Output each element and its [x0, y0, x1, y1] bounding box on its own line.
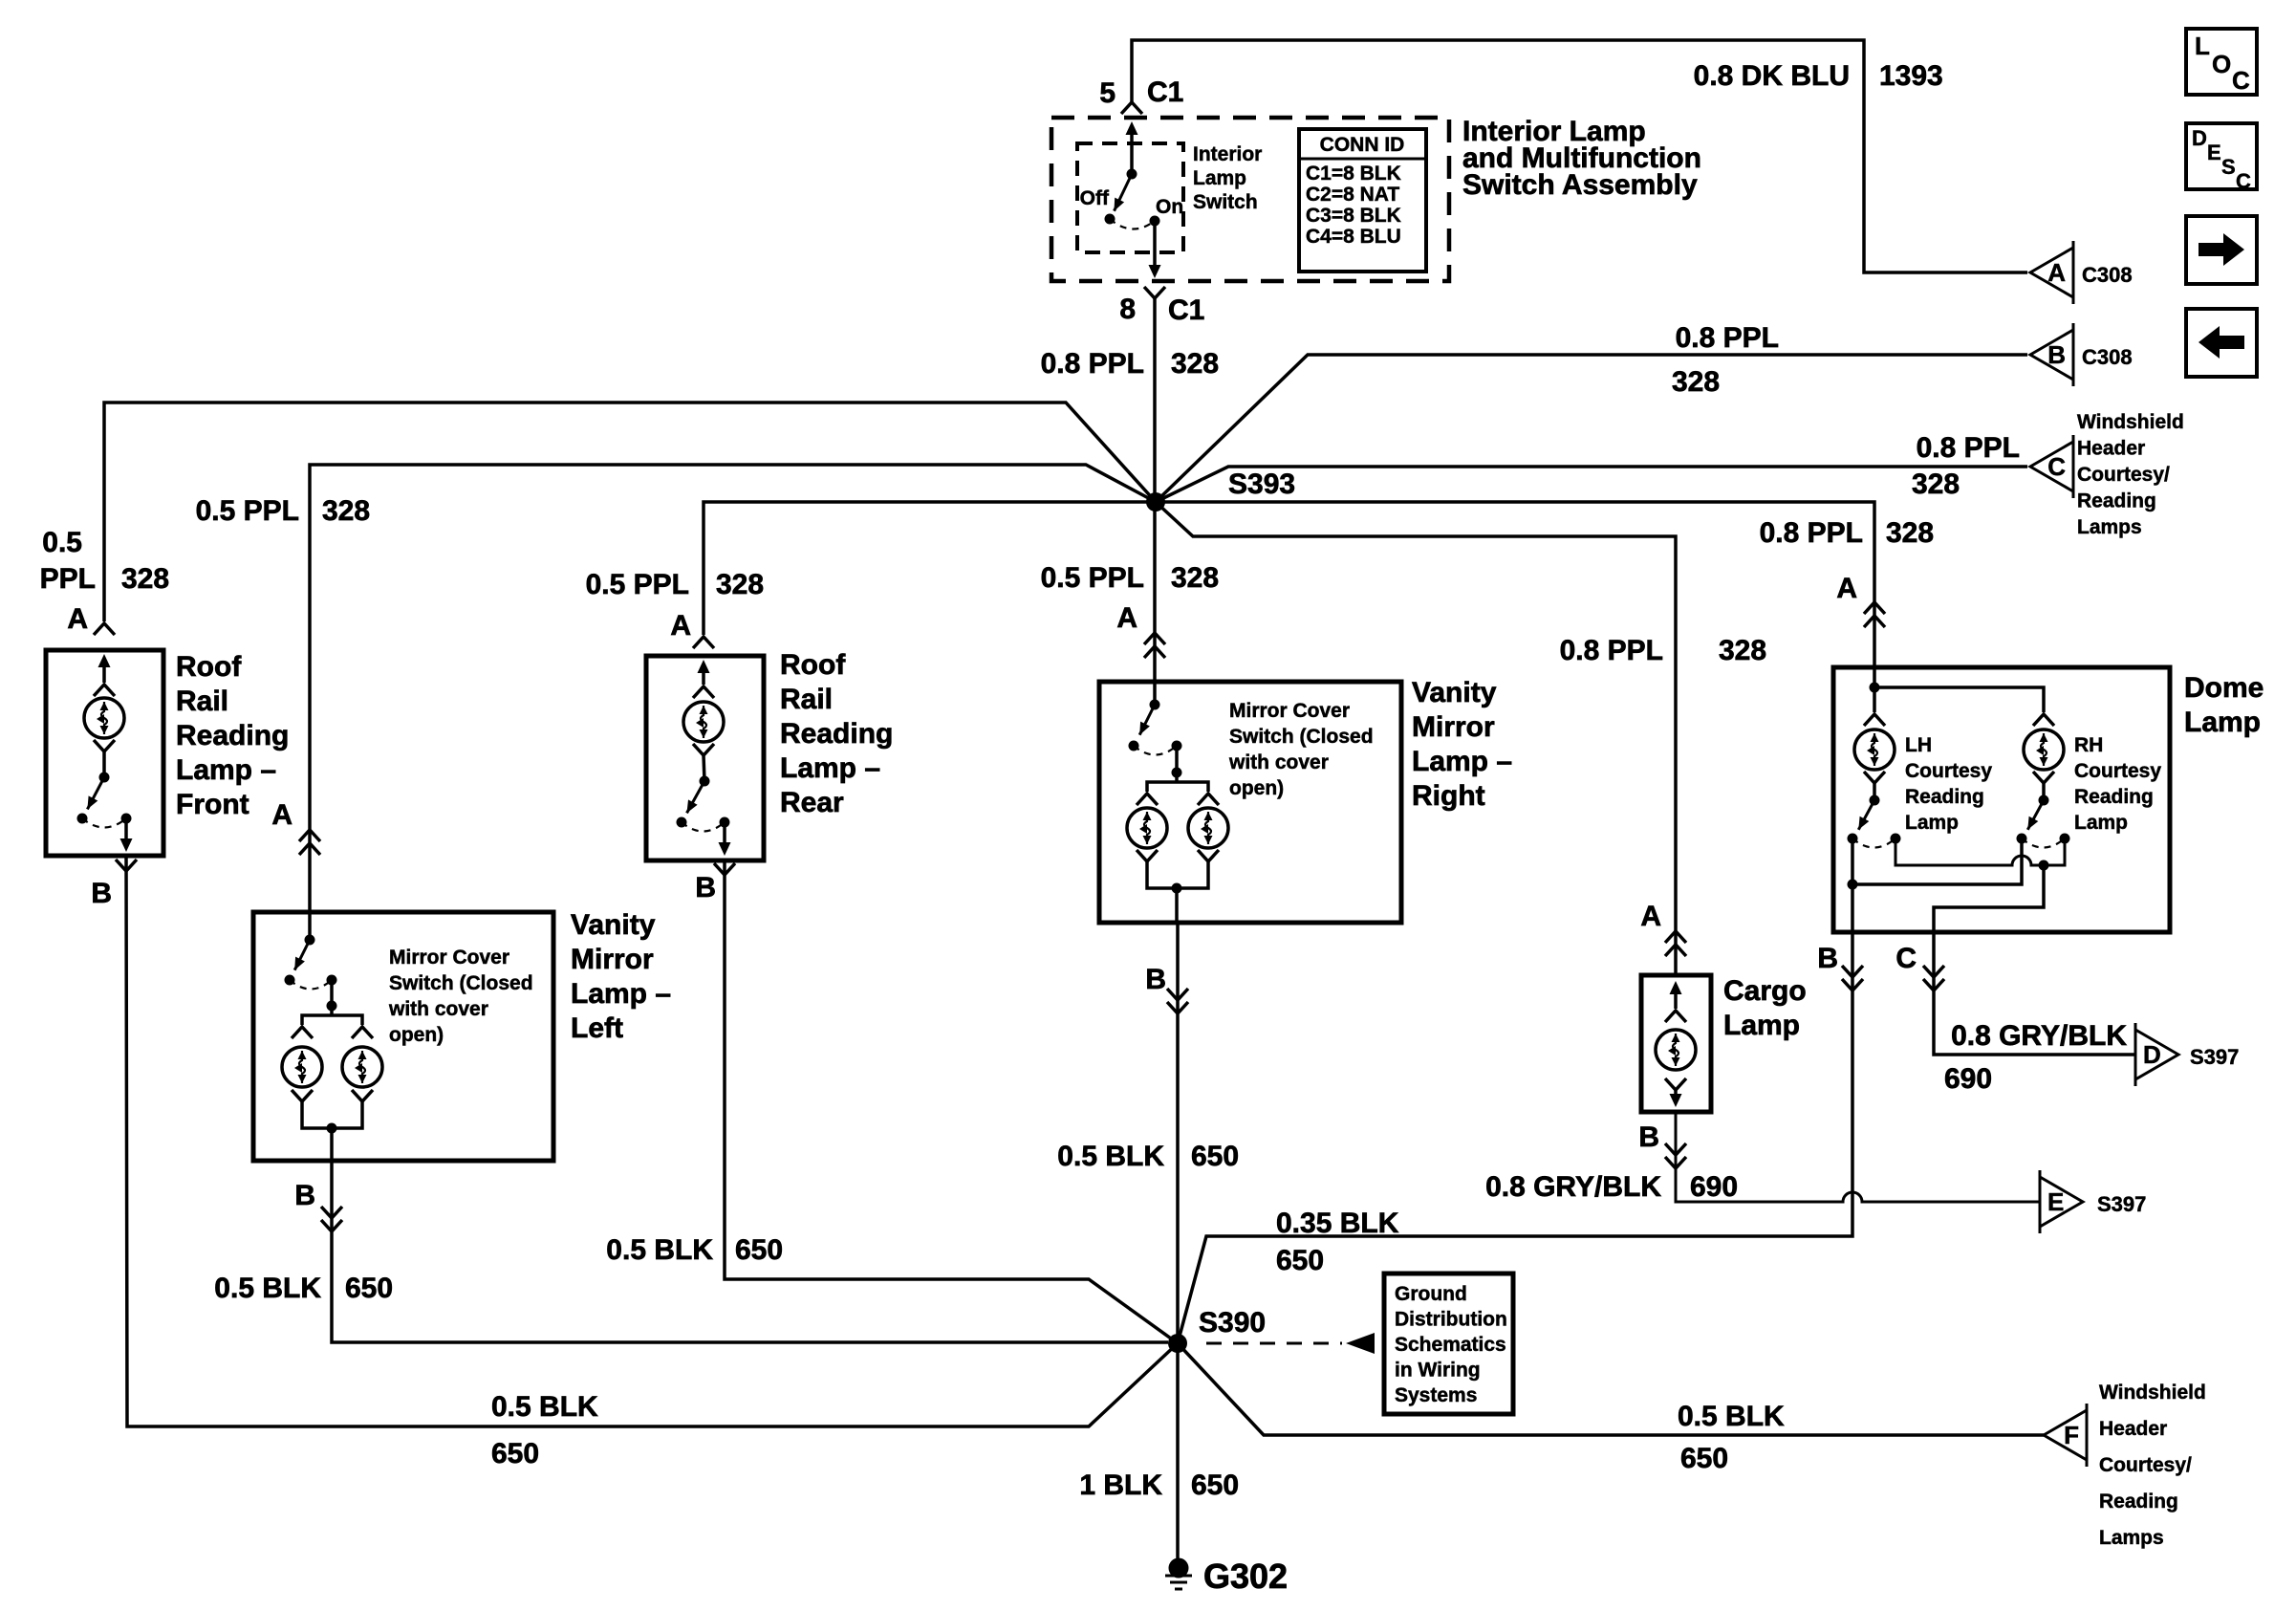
- svg-text:LH: LH: [1905, 734, 1932, 756]
- svg-text:Courtesy/: Courtesy/: [2099, 1454, 2192, 1476]
- svg-text:B: B: [695, 872, 716, 903]
- svg-text:Reading: Reading: [780, 718, 893, 750]
- roof rail reading lamp front box: [46, 650, 163, 856]
- svg-text:C: C: [1895, 943, 1917, 974]
- wire 0.35 BLK 650 dome B to S390: [1178, 932, 1852, 1343]
- svg-text:650: 650: [491, 1438, 539, 1469]
- connector chevron rear lamp A: [693, 637, 714, 648]
- svg-text:328: 328: [1886, 517, 1934, 549]
- svg-text:1 BLK: 1 BLK: [1079, 1469, 1162, 1501]
- svg-text:Roof: Roof: [176, 651, 242, 683]
- switch feed line with up arrow: [1130, 126, 1134, 174]
- svg-text:B: B: [91, 878, 112, 909]
- wire 0.8 PPL 328 S393 to connector C windshield header: [1156, 467, 2027, 502]
- dome LH switch pivot: [1870, 795, 1880, 806]
- svg-text:Courtesy: Courtesy: [2074, 760, 2161, 782]
- dome LH contact left: [1848, 834, 1858, 844]
- svg-text:Reading: Reading: [2099, 1491, 2178, 1513]
- svg-text:0.8 GRY/BLK: 0.8 GRY/BLK: [1951, 1020, 2127, 1052]
- svg-text:C1=8 BLK: C1=8 BLK: [1306, 163, 1401, 185]
- dome RH switch arm: [2027, 800, 2044, 830]
- svg-text:650: 650: [1191, 1469, 1239, 1501]
- svg-text:A: A: [2047, 258, 2066, 287]
- svg-text:650: 650: [1680, 1443, 1728, 1474]
- vanity right merge junction: [1172, 883, 1182, 894]
- front lamp bulb lower connector: [94, 740, 115, 751]
- svg-text:650: 650: [735, 1234, 783, 1266]
- roof rail reading lamp rear box: [646, 656, 764, 860]
- wire 0.8 PPL 328 S393 to dome lamp: [1156, 502, 1874, 667]
- svg-text:B: B: [1145, 964, 1166, 995]
- wire 0.5 BLK 650 S390 to connector F windshield header: [1178, 1343, 2044, 1435]
- switch output line with down arrow: [1153, 221, 1157, 273]
- dome RH dashed arc: [2022, 838, 2065, 848]
- right arrow legend box: [2186, 216, 2257, 284]
- switch pivot: [1127, 169, 1137, 180]
- vanity left split junction: [327, 1001, 337, 1012]
- wire 0.5 PPL 328 S393 to roof rail reading lamp front: [104, 403, 1156, 621]
- rear lamp output line with down arrow: [723, 822, 726, 851]
- svg-text:Lamp: Lamp: [1723, 1010, 1800, 1041]
- svg-text:S390: S390: [1199, 1307, 1266, 1339]
- svg-text:C1: C1: [1168, 294, 1204, 326]
- triangle connector B C308: [2030, 330, 2073, 380]
- svg-text:Courtesy/: Courtesy/: [2077, 464, 2170, 486]
- svg-text:A: A: [1640, 901, 1661, 932]
- svg-text:D: D: [2192, 126, 2207, 150]
- svg-text:Dome: Dome: [2184, 672, 2264, 704]
- dome RH bulb connector: [2033, 714, 2054, 726]
- svg-text:Mirror: Mirror: [571, 944, 654, 975]
- svg-text:328: 328: [1171, 348, 1219, 380]
- dome LH bulb connector: [1864, 714, 1885, 726]
- svg-text:0.8 PPL: 0.8 PPL: [1917, 432, 2020, 464]
- svg-text:D: D: [2143, 1040, 2161, 1069]
- svg-text:A: A: [271, 799, 292, 831]
- wire 0.5 PPL 328 S393 to roof rail reading lamp rear: [704, 502, 1156, 635]
- svg-text:0.5 PPL: 0.5 PPL: [586, 569, 689, 600]
- vanity right bulb 2: [1188, 808, 1228, 848]
- svg-text:Lamps: Lamps: [2099, 1527, 2164, 1549]
- svg-text:690: 690: [1944, 1063, 1992, 1095]
- wire 0.5 BLK 650 rear lamp to S390: [725, 860, 1178, 1343]
- vanity mirror lamp right box: [1099, 682, 1401, 923]
- front lamp switch contact left: [77, 814, 88, 824]
- svg-text:open): open): [389, 1024, 444, 1046]
- dome LH right contact to RH right contact wire with hop: [1895, 838, 2065, 865]
- svg-text:with cover: with cover: [388, 998, 488, 1020]
- svg-text:0.8 PPL: 0.8 PPL: [1041, 348, 1144, 380]
- svg-text:PPL: PPL: [40, 563, 96, 595]
- wire 0.8 PPL 328 S393 to cargo lamp: [1156, 502, 1676, 975]
- vanity left bulb 1 lower connector: [292, 1090, 313, 1101]
- dome RH switch pivot: [2039, 795, 2049, 806]
- svg-text:Windshield: Windshield: [2099, 1382, 2206, 1404]
- svg-text:Lamp –: Lamp –: [571, 978, 671, 1010]
- vanity left output line: [330, 1128, 334, 1161]
- svg-text:Systems: Systems: [1395, 1384, 1477, 1406]
- wire 0.8 GRY/BLK 690 dome C to connector D S397: [1934, 932, 2135, 1055]
- svg-text:C4=8 BLU: C4=8 BLU: [1306, 226, 1401, 248]
- splice S393: [1146, 492, 1165, 512]
- svg-text:C2=8 NAT: C2=8 NAT: [1306, 184, 1399, 206]
- dome LH dashed arc: [1852, 838, 1895, 848]
- left arrow legend box: [2186, 309, 2257, 377]
- ground G302 symbol: [1169, 1558, 1189, 1578]
- vanity right switch pivot: [1150, 700, 1160, 710]
- svg-text:C3=8 BLK: C3=8 BLK: [1306, 205, 1401, 227]
- vanity left merge lines: [302, 1101, 332, 1128]
- svg-text:Reading: Reading: [1905, 786, 1984, 808]
- svg-text:0.5 PPL: 0.5 PPL: [196, 495, 299, 527]
- svg-text:Lamp –: Lamp –: [176, 754, 276, 786]
- svg-text:C: C: [2232, 66, 2250, 95]
- svg-text:Rear: Rear: [780, 787, 844, 818]
- vanity right bulb 2 lower connector: [1198, 850, 1219, 861]
- svg-text:S397: S397: [2190, 1045, 2239, 1069]
- svg-text:Reading: Reading: [2077, 490, 2156, 512]
- wire 0.5 PPL 328 S393 down to vanity mirror lamp right: [1153, 502, 1157, 705]
- splice S390: [1168, 1334, 1187, 1353]
- svg-text:Reading: Reading: [2074, 786, 2154, 808]
- svg-text:328: 328: [1912, 468, 1960, 500]
- in-line connector dome B: [1842, 979, 1863, 991]
- svg-text:S393: S393: [1228, 468, 1295, 500]
- svg-text:in Wiring: in Wiring: [1395, 1360, 1481, 1382]
- svg-text:5: 5: [1099, 77, 1116, 109]
- vanity right bulb branch tee: [1147, 782, 1177, 792]
- dome lamp feed junction: [1870, 683, 1880, 693]
- svg-text:Front: Front: [176, 789, 249, 820]
- connector Y pin 8 C1: [1144, 287, 1165, 298]
- svg-text:C308: C308: [2082, 345, 2133, 369]
- interior lamp and multifunction switch assembly outer dashed box: [1051, 118, 1449, 281]
- svg-text:Roof: Roof: [780, 649, 846, 681]
- svg-text:Header: Header: [2099, 1418, 2167, 1440]
- vanity left line to bulb split: [330, 980, 334, 1006]
- wire 0.8 PPL 328 S393 to connector B C308: [1156, 355, 2027, 502]
- wire 0.8 DK BLU 1393 from switch pin 5 to connector A C308: [1132, 40, 2027, 272]
- dome LH bulb: [1854, 729, 1895, 770]
- dome lamp feed line: [1873, 667, 1876, 712]
- svg-text:0.8 PPL: 0.8 PPL: [1676, 322, 1779, 354]
- svg-text:B: B: [1638, 1121, 1659, 1153]
- switch dashed arc: [1110, 219, 1155, 229]
- vanity right line to bulb split: [1175, 746, 1179, 773]
- CONN ID header rule: [1299, 158, 1426, 161]
- svg-text:B: B: [294, 1180, 315, 1211]
- dome RH bulb: [2024, 729, 2064, 770]
- ground distribution schematics box: [1384, 1274, 1513, 1414]
- dome LH switch arm: [1858, 800, 1874, 830]
- vanity right bulb 1 lower connector: [1137, 850, 1158, 861]
- rear lamp bulb connector chevron: [693, 686, 714, 698]
- interior lamp switch arm (Off position): [1115, 174, 1133, 211]
- in-line connector vanity right A: [1144, 633, 1165, 644]
- svg-text:B: B: [1817, 943, 1838, 974]
- svg-text:A: A: [67, 603, 88, 635]
- svg-text:Lamp –: Lamp –: [1412, 746, 1512, 777]
- interior lamp switch inner dashed box: [1077, 143, 1183, 252]
- vanity left switch arm: [294, 940, 310, 970]
- dome lamp feed crossbar to RH: [1874, 687, 2044, 712]
- svg-text:Courtesy: Courtesy: [1905, 760, 1992, 782]
- svg-text:A: A: [1836, 573, 1857, 604]
- svg-text:0.8 DK BLU: 0.8 DK BLU: [1694, 60, 1850, 92]
- rear lamp switch contact left: [677, 817, 687, 828]
- vanity right bulb 1: [1127, 808, 1167, 848]
- front lamp switch pivot: [99, 773, 110, 783]
- triangle connector D S397: [2135, 1030, 2178, 1079]
- dome LH line to pivot: [1873, 783, 1876, 800]
- rear lamp bulb lower connector: [693, 744, 714, 755]
- triangle connector F windshield header: [2044, 1410, 2087, 1460]
- svg-text:Distribution: Distribution: [1395, 1309, 1507, 1331]
- vanity left bulb branch tee: [302, 1015, 332, 1025]
- dashed reference line to ground distribution box: [1206, 1342, 1342, 1345]
- svg-text:Cargo: Cargo: [1723, 975, 1807, 1007]
- svg-text:Vanity: Vanity: [1412, 677, 1497, 708]
- vanity left bulb 2 connector: [352, 1027, 373, 1038]
- svg-text:Interior: Interior: [1193, 143, 1262, 165]
- vanity left switch pivot: [305, 935, 315, 946]
- svg-text:A: A: [670, 610, 691, 642]
- svg-text:Lamp: Lamp: [1193, 167, 1246, 189]
- in-line connector vanity right B: [1167, 1002, 1188, 1013]
- front lamp switch contact right: [121, 814, 132, 824]
- dome RH contact right: [2060, 834, 2070, 844]
- svg-text:E: E: [2207, 141, 2221, 164]
- front lamp bulb: [84, 698, 124, 738]
- svg-text:Right: Right: [1412, 780, 1485, 812]
- svg-text:328: 328: [716, 569, 764, 600]
- vanity left merge junction: [327, 1123, 337, 1134]
- svg-text:G302: G302: [1203, 1557, 1288, 1596]
- cargo lamp feed line with up arrow: [1674, 985, 1678, 1009]
- front lamp bulb connector chevron: [94, 685, 115, 696]
- svg-text:Off: Off: [1080, 187, 1110, 209]
- svg-text:0.8 PPL: 0.8 PPL: [1560, 635, 1663, 666]
- front lamp line to switch pivot: [102, 751, 106, 777]
- svg-text:0.35 BLK: 0.35 BLK: [1276, 1208, 1399, 1239]
- vanity right switch dashed arc: [1134, 746, 1177, 755]
- svg-text:650: 650: [1191, 1141, 1239, 1172]
- svg-text:8: 8: [1119, 294, 1136, 325]
- svg-text:Rail: Rail: [780, 684, 833, 715]
- svg-text:0.8 GRY/BLK: 0.8 GRY/BLK: [1485, 1171, 1661, 1203]
- vanity left bulb 2 lower connector: [352, 1090, 373, 1101]
- cargo lamp output line with down arrow: [1674, 1090, 1678, 1102]
- vanity right merge lines: [1147, 861, 1177, 888]
- svg-text:328: 328: [1171, 562, 1219, 594]
- svg-text:with cover: with cover: [1228, 751, 1329, 773]
- svg-text:Mirror: Mirror: [1412, 711, 1495, 743]
- rear lamp bulb: [683, 702, 724, 742]
- dome lamp box: [1833, 667, 2170, 932]
- svg-text:E: E: [2047, 1187, 2064, 1216]
- svg-text:328: 328: [322, 495, 370, 527]
- svg-text:Reading: Reading: [176, 720, 289, 751]
- svg-text:328: 328: [1672, 366, 1720, 398]
- svg-text:Schematics: Schematics: [1395, 1334, 1506, 1356]
- svg-text:0.8 PPL: 0.8 PPL: [1760, 517, 1863, 549]
- svg-text:0.5 BLK: 0.5 BLK: [1678, 1401, 1785, 1432]
- svg-text:Lamps: Lamps: [2077, 516, 2142, 538]
- dome lamp C junction: [2039, 860, 2049, 871]
- rear lamp switch arm: [687, 781, 705, 813]
- vanity left bulb 1 connector: [292, 1027, 313, 1038]
- dome RH contact left: [2017, 834, 2027, 844]
- svg-text:Switch (Closed: Switch (Closed: [389, 972, 533, 994]
- svg-text:650: 650: [345, 1273, 393, 1304]
- wire 0.5 BLK 650 front lamp to S390: [126, 856, 1178, 1426]
- vanity right bulb 2 connector: [1198, 794, 1219, 805]
- svg-text:S: S: [2221, 155, 2236, 179]
- svg-text:CONN ID: CONN ID: [1320, 134, 1405, 156]
- svg-text:Header: Header: [2077, 438, 2145, 460]
- svg-text:650: 650: [1276, 1245, 1324, 1276]
- vanity right output line: [1175, 888, 1179, 923]
- svg-text:Lamp –: Lamp –: [780, 752, 880, 784]
- in-line connector dome C: [1923, 979, 1944, 991]
- svg-text:C1: C1: [1147, 76, 1183, 108]
- wire 0.5 PPL 328 S393 to vanity mirror lamp left: [310, 465, 1156, 828]
- wire 0.8 GRY/BLK 690 cargo to connector E S397 with hop: [1676, 1112, 2040, 1202]
- CONN ID table box: [1299, 129, 1426, 272]
- svg-text:RH: RH: [2074, 734, 2103, 756]
- front lamp output line with down arrow: [124, 818, 128, 847]
- svg-text:Mirror Cover: Mirror Cover: [389, 947, 509, 969]
- svg-text:F: F: [2064, 1421, 2079, 1449]
- front lamp switch arm: [87, 777, 104, 809]
- cargo lamp bulb connector: [1665, 1011, 1686, 1022]
- svg-text:Rail: Rail: [176, 686, 228, 717]
- svg-text:S397: S397: [2097, 1192, 2146, 1216]
- svg-text:0.5 BLK: 0.5 BLK: [606, 1234, 713, 1266]
- switch On contact: [1150, 216, 1160, 227]
- wire 0.8 PPL 328 switch to S393: [1153, 298, 1157, 502]
- svg-text:Mirror Cover: Mirror Cover: [1229, 700, 1350, 722]
- vanity left switch dashed arc: [290, 980, 332, 990]
- svg-text:Switch: Switch: [1193, 191, 1258, 213]
- wire 0.5 BLK 650 vanity left to S390: [332, 1161, 1168, 1342]
- svg-text:open): open): [1229, 777, 1284, 799]
- reference arrowhead: [1346, 1333, 1375, 1354]
- rear lamp feed line with up arrow: [702, 664, 705, 685]
- vanity right switch contact left: [1129, 741, 1139, 751]
- front lamp switch dashed arc: [82, 818, 126, 828]
- front lamp feed line with up arrow: [102, 658, 106, 683]
- vanity left switch contact right: [327, 975, 337, 986]
- dome B junction: [1848, 880, 1858, 890]
- svg-text:0.5 PPL: 0.5 PPL: [1041, 562, 1144, 594]
- vanity left bulb 2: [342, 1047, 382, 1087]
- svg-text:A: A: [1116, 602, 1137, 634]
- vanity left switch contact left: [285, 975, 295, 986]
- dome RH line to pivot: [2042, 783, 2046, 800]
- dome lamp C internal wire: [1934, 865, 2044, 932]
- svg-text:C308: C308: [2082, 263, 2133, 287]
- svg-text:B: B: [2047, 340, 2066, 369]
- svg-text:0.5: 0.5: [42, 527, 82, 558]
- rear lamp switch dashed arc: [682, 822, 725, 832]
- svg-text:328: 328: [121, 563, 169, 595]
- cargo lamp box: [1641, 975, 1711, 1112]
- vanity right switch contact right: [1172, 741, 1182, 751]
- rear lamp switch contact right: [720, 817, 730, 828]
- switch Off contact: [1105, 214, 1116, 225]
- svg-text:Left: Left: [571, 1012, 623, 1044]
- svg-text:L: L: [2195, 32, 2210, 60]
- vanity left bulb 1: [282, 1047, 322, 1087]
- svg-text:Switch (Closed: Switch (Closed: [1229, 726, 1374, 748]
- connector Y front lamp B: [116, 860, 137, 871]
- in-line connector vanity left B: [321, 1220, 342, 1231]
- connector Y pin 5 C1: [1121, 102, 1142, 114]
- triangle connector E S397: [2040, 1177, 2083, 1227]
- svg-text:Ground: Ground: [1395, 1283, 1467, 1305]
- wire 1 BLK 650 S390 to ground G302: [1176, 1343, 1180, 1558]
- in-line connector vanity left A: [299, 830, 320, 841]
- vanity mirror lamp left box: [253, 912, 553, 1161]
- connector Y rear lamp B: [714, 863, 735, 875]
- vanity right bulb 1 connector: [1137, 794, 1158, 805]
- dome LH bulb lower connector: [1864, 772, 1885, 783]
- svg-text:C: C: [2047, 452, 2066, 481]
- LOC legend box: [2186, 29, 2257, 95]
- svg-text:1393: 1393: [1879, 60, 1943, 92]
- DESC legend box: [2186, 123, 2257, 189]
- dome LH contact right: [1891, 834, 1901, 844]
- svg-text:Vanity: Vanity: [571, 909, 656, 941]
- connector chevron front lamp A: [94, 623, 115, 635]
- cargo lamp bulb lower connector: [1665, 1078, 1686, 1090]
- svg-text:C: C: [2236, 169, 2251, 193]
- cargo lamp bulb: [1656, 1030, 1696, 1070]
- svg-text:328: 328: [1719, 635, 1766, 666]
- vanity right split junction: [1172, 768, 1182, 778]
- svg-text:0.5 BLK: 0.5 BLK: [214, 1273, 321, 1304]
- triangle connector A C308: [2030, 248, 2073, 297]
- rear lamp line to switch pivot: [704, 755, 704, 781]
- svg-text:Switch Assembly: Switch Assembly: [1462, 169, 1698, 201]
- dome RH bulb lower connector: [2033, 772, 2054, 783]
- svg-text:Lamp: Lamp: [2074, 812, 2128, 834]
- svg-text:Lamp: Lamp: [2184, 707, 2261, 738]
- vanity right switch arm: [1139, 705, 1155, 735]
- svg-text:On: On: [1156, 196, 1183, 218]
- in-line connector cargo B: [1665, 1157, 1686, 1168]
- svg-text:0.5 BLK: 0.5 BLK: [491, 1391, 598, 1423]
- svg-text:O: O: [2212, 50, 2231, 78]
- dome LH left contact down wire (pin B): [1851, 838, 1854, 932]
- svg-text:0.5 BLK: 0.5 BLK: [1057, 1141, 1164, 1172]
- triangle connector C windshield header: [2030, 442, 2073, 491]
- wire 0.5 BLK 650 vanity right to S390: [1176, 923, 1180, 1343]
- svg-text:690: 690: [1690, 1171, 1738, 1203]
- dome RH left contact to B wire: [1852, 838, 2022, 884]
- in-line connector dome A: [1864, 602, 1885, 614]
- svg-text:Windshield: Windshield: [2077, 411, 2184, 433]
- rear lamp switch pivot: [700, 776, 710, 787]
- svg-text:Lamp: Lamp: [1905, 812, 1959, 834]
- in-line connector cargo A: [1665, 931, 1686, 943]
